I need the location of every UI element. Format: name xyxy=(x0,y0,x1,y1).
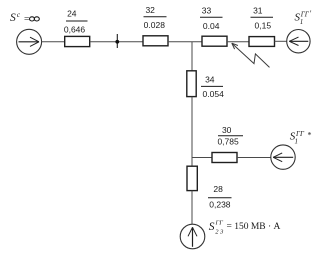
svg-text:0.04: 0.04 xyxy=(203,21,220,31)
fault lightning arrow xyxy=(232,43,270,67)
svg-text:0,238: 0,238 xyxy=(209,200,231,210)
svg-text:30: 30 xyxy=(222,125,232,135)
svg-text:2 3: 2 3 xyxy=(215,229,224,236)
resistor 32 xyxy=(143,36,168,46)
label S1^GG' xyxy=(295,9,313,26)
wire xyxy=(275,40,287,42)
label S1^GG* xyxy=(290,130,312,146)
svg-text:28: 28 xyxy=(213,184,223,194)
svg-text:S: S xyxy=(209,221,215,233)
label 30 / 0,785 xyxy=(217,125,243,147)
wire xyxy=(168,41,202,43)
node tick with junction dot xyxy=(115,34,119,48)
svg-text:ГГ: ГГ xyxy=(295,130,305,138)
svg-text:*: * xyxy=(308,131,312,140)
svg-text:1: 1 xyxy=(295,137,299,145)
label 31 / 0,15 xyxy=(251,6,274,31)
svg-text:0,646: 0,646 xyxy=(64,25,86,35)
wire xyxy=(90,41,143,43)
wire xyxy=(227,41,249,43)
label 33 / 0.04 xyxy=(200,5,223,31)
svg-text:0.028: 0.028 xyxy=(144,20,166,30)
svg-text:0,785: 0,785 xyxy=(217,137,239,147)
source S1* circle xyxy=(271,145,295,169)
svg-text:34: 34 xyxy=(205,74,215,84)
source S1' circle xyxy=(287,30,310,53)
resistor 33 xyxy=(202,36,227,46)
wire xyxy=(42,41,65,43)
wire vertical bottom xyxy=(191,191,193,225)
svg-text:= 150 МВ · А: = 150 МВ · А xyxy=(227,222,281,232)
resistor 24 xyxy=(65,36,90,46)
label 28 / 0,238 xyxy=(208,184,232,210)
svg-text:33: 33 xyxy=(202,5,212,15)
svg-text:S: S xyxy=(10,12,16,24)
resistor 30 xyxy=(212,153,237,163)
label S23^GG = 150 MVA xyxy=(209,220,281,236)
svg-text:31: 31 xyxy=(253,6,263,16)
label 32 / 0.028 xyxy=(144,5,167,30)
resistor 34 xyxy=(187,71,196,97)
wire vertical top xyxy=(191,42,193,71)
svg-text:0.054: 0.054 xyxy=(203,89,225,99)
svg-text:ГГ: ГГ xyxy=(215,220,224,227)
source S system circle xyxy=(17,29,42,54)
svg-text:0,15: 0,15 xyxy=(255,21,272,31)
svg-text:=: = xyxy=(24,15,29,25)
label S^c = infinity xyxy=(10,10,39,25)
wire xyxy=(237,157,271,159)
svg-text:1: 1 xyxy=(300,18,304,26)
source S23 circle xyxy=(180,224,205,249)
wire branch right xyxy=(192,157,212,159)
wire vertical middle xyxy=(191,97,193,167)
label 24 / 0,646 xyxy=(64,9,88,35)
resistor 28 xyxy=(187,166,197,190)
resistor 31 xyxy=(249,37,275,47)
label 34 / 0.054 xyxy=(201,74,224,99)
svg-text:32: 32 xyxy=(145,5,155,15)
svg-text:ГГ: ГГ xyxy=(300,11,310,19)
svg-text:24: 24 xyxy=(67,9,77,19)
